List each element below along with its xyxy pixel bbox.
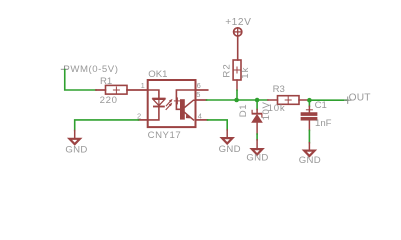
transistor emitter with arrow [185, 113, 194, 120]
transistor collector [185, 100, 195, 107]
svg-text:6: 6 [197, 81, 201, 90]
OK1 origin cross [174, 98, 180, 104]
LED emission arrows [166, 99, 172, 110]
pin 1 lead is drawn with R1; pin 2 lead [139, 119, 148, 121]
svg-text:GND: GND [246, 153, 268, 164]
ground GND1 [65, 131, 87, 156]
diode LED inside OK1 [149, 90, 166, 120]
node PWM wire-end cross [61, 66, 67, 72]
svg-text:+12V: +12V [225, 17, 251, 28]
svg-text:5: 5 [196, 90, 200, 99]
svg-text:GND: GND [219, 144, 241, 155]
svg-text:GND: GND [65, 144, 87, 155]
svg-text:R3: R3 [273, 84, 285, 95]
wire pin4 net to GND [208, 120, 228, 130]
wire D1 to GND [256, 134, 258, 140]
svg-text:D1: D1 [238, 104, 249, 117]
resistor R1 [96, 85, 148, 94]
svg-text:CNY17: CNY17 [148, 130, 182, 141]
transistor base bar [180, 99, 185, 119]
svg-text:R1: R1 [100, 76, 112, 87]
pin 4 lead [196, 119, 208, 121]
svg-text:4: 4 [198, 111, 202, 120]
svg-text:1k: 1k [240, 66, 251, 78]
svg-text:2: 2 [137, 111, 141, 120]
node OUT wire-end cross [345, 97, 351, 103]
resistor R2 [233, 60, 241, 90]
svg-text:PWM(0-5V): PWM(0-5V) [63, 64, 118, 75]
svg-text:10k: 10k [268, 103, 286, 114]
junction at D1 [255, 98, 260, 103]
pin 6 lead [196, 89, 208, 91]
wire PWM input net [65, 70, 96, 91]
wire C1 to GND [308, 130, 310, 142]
capacitor C1 [301, 100, 317, 130]
ground GND2 [219, 130, 241, 155]
junction at C1/OUT [307, 98, 312, 103]
svg-text:C1: C1 [315, 100, 327, 111]
wire R2 to net [236, 90, 238, 100]
wire OUT net [309, 99, 347, 101]
op-amp U1 : optocoupler OK1 box [148, 80, 196, 127]
ground GND4 [299, 143, 321, 167]
svg-text:1: 1 [141, 81, 145, 90]
diode D1 zener [252, 100, 262, 134]
svg-text:GND: GND [299, 155, 321, 166]
supply +12V symbol [234, 28, 242, 60]
wire pin2 net to GND [75, 120, 139, 131]
transistor Q inside OK1: base wire from pin 6 [176, 90, 194, 109]
svg-text:OK1: OK1 [148, 69, 167, 80]
svg-text:R2: R2 [222, 63, 233, 77]
wire collector net (pin 5 to R3) [207, 99, 268, 101]
svg-text:1nF: 1nF [315, 118, 332, 129]
resistor R3 [268, 96, 310, 105]
junction at R2 [234, 98, 239, 103]
svg-text:220: 220 [100, 95, 118, 106]
svg-text:OUT: OUT [349, 92, 371, 103]
ground GND3 [246, 140, 268, 164]
pin 5 lead [196, 99, 207, 101]
